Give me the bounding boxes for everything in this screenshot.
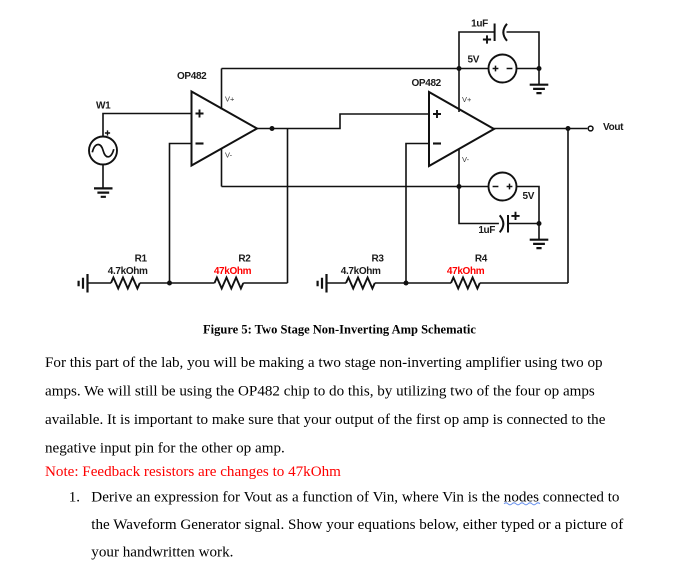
grammar squiggle under word nodes bbox=[504, 503, 540, 505]
wire: ground to R3 bbox=[327, 282, 347, 284]
svg-text:Note: Feedback resistors are c: Note: Feedback resistors are changes to … bbox=[45, 464, 341, 480]
Vout open terminal circle bbox=[588, 126, 593, 131]
svg-text:47kOhm: 47kOhm bbox=[447, 266, 485, 277]
svg-text:R2: R2 bbox=[238, 253, 251, 264]
svg-text:47kOhm: 47kOhm bbox=[214, 266, 252, 277]
sideways ground at R1 left bbox=[79, 274, 88, 293]
wire: U1 output to U2 non-inverting input (with step) bbox=[257, 114, 429, 129]
svg-text:W1: W1 bbox=[96, 101, 111, 112]
wire: positive supply rail (U1 V+ to U2 V+ node) bbox=[222, 68, 489, 70]
pin V- of U2 bbox=[458, 149, 460, 187]
svg-text:For this part of the lab, you: For this part of the lab, you will be ma… bbox=[45, 355, 603, 371]
svg-text:amps. We will still be using t: amps. We will still be using the OP482 c… bbox=[45, 384, 595, 400]
wire: V1 to ground node bbox=[517, 69, 540, 85]
wire: U2 V- node down to capacitor C2 bbox=[459, 187, 499, 224]
resistor R2 47kOhm zigzag bbox=[215, 278, 244, 289]
sine symbol inside W1 bbox=[92, 145, 114, 157]
pin V+ of U1 bbox=[221, 69, 223, 110]
sideways ground at R3 left bbox=[318, 274, 327, 293]
junction node: Vout bbox=[566, 126, 571, 131]
wire: R3 to feedback node B bbox=[375, 282, 451, 284]
pin V- of U1 bbox=[221, 148, 223, 187]
wire: W1 bottom to ground bbox=[102, 165, 104, 188]
junction node: R3-R4 feedback node B bbox=[404, 281, 409, 286]
svg-text:your handwritten work.: your handwritten work. bbox=[91, 545, 233, 561]
capacitor C2 1uF straight plate bbox=[507, 215, 509, 233]
capacitor C1 1uF curved plate bbox=[503, 24, 507, 41]
svg-text:R3: R3 bbox=[371, 253, 384, 264]
U2 plus input sign bbox=[433, 110, 441, 118]
svg-text:the Waveform Generator signal.: the Waveform Generator signal. Show your… bbox=[91, 517, 624, 533]
svg-text:1.: 1. bbox=[69, 490, 80, 506]
svg-text:Vout: Vout bbox=[603, 122, 624, 133]
svg-text:1uF: 1uF bbox=[478, 225, 495, 236]
junction node: V- rail at U2 bbox=[457, 184, 462, 189]
junction node: U1 output bbox=[270, 126, 275, 131]
wire: V2 positive side down to ground node bbox=[517, 187, 540, 224]
svg-text:V+: V+ bbox=[225, 95, 235, 104]
resistor R3 4.7kOhm zigzag bbox=[346, 278, 375, 289]
junction node: V+ rail at U2 bbox=[457, 66, 462, 71]
svg-text:V+: V+ bbox=[462, 95, 472, 104]
svg-text:5V: 5V bbox=[468, 54, 480, 65]
ground for negative supply bbox=[530, 240, 549, 248]
pin V+ of U2 bbox=[458, 69, 460, 113]
svg-text:negative input pin for the oth: negative input pin for the other op amp. bbox=[45, 440, 285, 456]
svg-text:available. It is important to: available. It is important to make sure … bbox=[45, 412, 606, 428]
capacitor C1 1uF straight plate bbox=[494, 24, 496, 42]
wire: U2 inverting input to feedback node bbox=[406, 144, 429, 284]
junction node: negative supply ground bbox=[537, 221, 542, 226]
wire: U1 output branch down to R2 bbox=[287, 129, 289, 284]
wire: U1 inverting input to feedback node bbox=[170, 144, 192, 284]
wire: R2 to U1 output branch bbox=[243, 282, 287, 284]
U2 minus input sign bbox=[433, 142, 441, 144]
op-amp U2 (OP482 stage 2) triangle bbox=[429, 92, 494, 166]
negative 5V supply source V2 circle bbox=[489, 173, 517, 201]
svg-text:Figure 5: Two Stage Non-Invert: Figure 5: Two Stage Non-Inverting Amp Sc… bbox=[203, 322, 476, 336]
ground under W1 bbox=[94, 188, 113, 196]
svg-text:R1: R1 bbox=[135, 253, 148, 264]
ground for positive supply bbox=[530, 85, 549, 93]
plus polarity mark of C1 bbox=[483, 35, 491, 43]
V1 plus sign bbox=[493, 66, 499, 72]
svg-text:R4: R4 bbox=[475, 253, 488, 264]
wire: ground to R1 bbox=[88, 282, 112, 284]
svg-text:OP482: OP482 bbox=[412, 78, 442, 89]
positive 5V supply source V1 circle bbox=[489, 55, 517, 83]
svg-text:4.7kOhm: 4.7kOhm bbox=[108, 266, 148, 277]
V1 minus sign bbox=[507, 68, 513, 70]
U1 minus input sign bbox=[196, 142, 204, 144]
svg-text:V-: V- bbox=[462, 155, 470, 164]
wire: R1 to feedback node A bbox=[140, 282, 215, 284]
svg-text:1uF: 1uF bbox=[471, 19, 488, 30]
junction node: positive supply ground bbox=[537, 66, 542, 71]
wire: R4 to output branch bbox=[480, 282, 568, 284]
capacitor C2 1uF curved plate bbox=[500, 215, 504, 232]
plus polarity mark at W1 top bbox=[105, 130, 110, 135]
V2 plus sign bbox=[507, 184, 513, 190]
wire: W1 output up and right to U1 non-inverting input bbox=[103, 114, 192, 137]
svg-text:4.7kOhm: 4.7kOhm bbox=[341, 266, 381, 277]
resistor R4 47kOhm zigzag bbox=[451, 278, 480, 289]
wire: U2 output to Vout terminal bbox=[494, 128, 587, 131]
wire: C2 straight plate to ground node bbox=[508, 224, 539, 240]
wire: bypass capacitor C1 loop left leg bbox=[459, 32, 495, 69]
op-amp U1 (OP482 stage 1) triangle bbox=[192, 92, 258, 166]
V2 minus sign bbox=[493, 186, 499, 188]
wire: output feedback branch down to R4 bbox=[567, 129, 569, 284]
svg-text:Derive an expression for Vout: Derive an expression for Vout as a funct… bbox=[91, 490, 619, 506]
svg-text:OP482: OP482 bbox=[177, 71, 207, 82]
U1 plus input sign bbox=[196, 110, 204, 118]
wire: C1 right plate to ground leg bbox=[507, 32, 540, 69]
junction node: R1-R2 feedback node A bbox=[167, 281, 172, 286]
svg-text:5V: 5V bbox=[523, 191, 535, 202]
voltage source W1 (waveform generator) bbox=[89, 137, 117, 165]
wire: negative supply rail (U1 V- to U2 V- node and 5V source) bbox=[222, 186, 489, 188]
svg-text:V-: V- bbox=[225, 151, 233, 160]
plus polarity mark of C2 bbox=[511, 212, 519, 220]
resistor R1 4.7kOhm zigzag bbox=[111, 278, 140, 289]
